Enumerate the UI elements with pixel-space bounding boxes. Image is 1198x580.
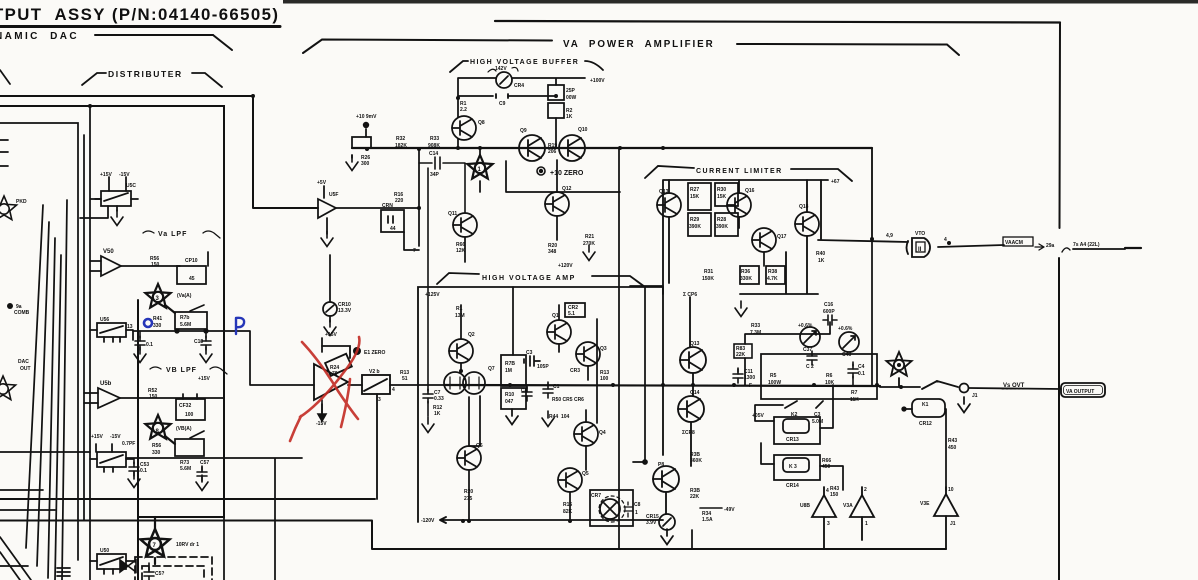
- capacitor C: [134, 331, 146, 363]
- star output: [886, 352, 911, 387]
- svg-text:275: 275: [464, 496, 473, 502]
- svg-text:R29: R29: [690, 217, 699, 223]
- section label: DISTRIBUTER bracket: [82, 73, 222, 87]
- svg-text:34P: 34P: [430, 172, 440, 178]
- svg-text:Va LPF: Va LPF: [158, 231, 187, 238]
- transistor Q19: [680, 347, 706, 396]
- svg-text:+15V: +15V: [198, 376, 210, 382]
- capacitor C7 0.33: [422, 385, 434, 433]
- transistor Q12: [545, 160, 569, 240]
- svg-text:4.7K: 4.7K: [767, 276, 778, 282]
- svg-text:29a: 29a: [1046, 243, 1055, 249]
- dashed boxes bottom-left: [135, 557, 212, 580]
- svg-text:44: 44: [390, 226, 396, 232]
- svg-text:C3: C3: [814, 412, 821, 418]
- svg-text:R44: R44: [549, 414, 558, 420]
- connector J1: [958, 384, 970, 413]
- svg-text:13: 13: [127, 324, 133, 330]
- svg-text:908K: 908K: [428, 143, 440, 149]
- svg-text:348: 348: [548, 249, 557, 255]
- svg-text:HIGH VOLTAGE BUFFER: HIGH VOLTAGE BUFFER: [470, 59, 579, 66]
- svg-text:Q17: Q17: [777, 234, 787, 240]
- svg-text:Q5: Q5: [582, 471, 589, 477]
- relay box with switch: [175, 431, 204, 456]
- ground under U5C: [111, 210, 123, 226]
- svg-text:7.3M: 7.3M: [750, 330, 761, 336]
- border: top dark band: [283, 0, 1198, 4]
- svg-text:R7b: R7b: [180, 315, 189, 321]
- star 1: [467, 148, 492, 192]
- svg-text:7: 7: [153, 543, 157, 549]
- diode CR2 box: [565, 303, 585, 317]
- svg-text:HIGH VOLTAGE AMP: HIGH VOLTAGE AMP: [482, 275, 576, 282]
- star 2 (Va(A)): [145, 284, 175, 313]
- wire distributer box: [0, 106, 224, 580]
- svg-text:+10 ZERO: +10 ZERO: [550, 170, 584, 177]
- svg-text:360K: 360K: [690, 458, 702, 464]
- svg-text:00W: 00W: [566, 95, 577, 101]
- svg-text:C4: C4: [858, 364, 865, 370]
- far-left partial star: [0, 196, 17, 220]
- svg-text:R43: R43: [948, 438, 957, 444]
- svg-text:+0.6%: +0.6%: [838, 326, 853, 332]
- svg-text:150K: 150K: [702, 276, 714, 282]
- transistor Q3: [576, 342, 600, 380]
- svg-text:CR13: CR13: [786, 437, 799, 443]
- svg-text:NAMIC DAC: NAMIC DAC: [0, 31, 79, 42]
- transistor Q14: [678, 396, 704, 466]
- svg-text:C8: C8: [521, 388, 528, 394]
- svg-text:COMB: COMB: [14, 310, 30, 316]
- wire left feeders: [0, 70, 101, 580]
- relay K2: [774, 417, 820, 444]
- svg-text:0.1: 0.1: [140, 468, 147, 474]
- wire arrow to A4: [1035, 244, 1070, 252]
- svg-text:5.6M: 5.6M: [180, 322, 191, 328]
- wire CL inner verticals: [669, 180, 821, 347]
- svg-text:150: 150: [149, 394, 158, 400]
- svg-text:P8: P8: [658, 462, 664, 468]
- svg-text:CF32: CF32: [179, 403, 191, 409]
- resistor R27: [688, 183, 711, 210]
- svg-text:C9: C9: [499, 101, 506, 107]
- resistor R30: [715, 183, 738, 206]
- svg-text:220: 220: [395, 198, 404, 204]
- svg-text:330: 330: [152, 450, 161, 456]
- svg-text:100: 100: [185, 412, 194, 418]
- svg-text:CR7: CR7: [591, 493, 601, 499]
- wire down from CL corner: [745, 239, 872, 385]
- transistor pair Q7: [444, 372, 485, 394]
- wire main out: [880, 381, 1061, 389]
- svg-text:(VB(A): (VB(A): [176, 426, 192, 432]
- svg-text:0.7PF: 0.7PF: [122, 441, 135, 447]
- svg-text:VA POWER AMPLIFIER: VA POWER AMPLIFIER: [563, 39, 715, 50]
- svg-text:C 2: C 2: [806, 364, 814, 370]
- svg-text:OUT: OUT: [20, 366, 31, 372]
- svg-text:3.9V: 3.9V: [646, 520, 657, 526]
- svg-text:CR12: CR12: [919, 421, 932, 427]
- svg-text:+05V: +05V: [752, 413, 764, 419]
- svg-text:45: 45: [189, 276, 195, 282]
- section label: VA POWER AMPLIFIER bracket: [303, 40, 959, 56]
- svg-text:C48: C48: [842, 352, 851, 358]
- svg-text:R21: R21: [585, 234, 594, 240]
- CRN cap box: [381, 210, 419, 250]
- transistor Q16: [727, 193, 751, 217]
- svg-text:VTO: VTO: [915, 231, 925, 237]
- transistor Q8: [452, 116, 476, 140]
- svg-text:II: II: [918, 247, 922, 253]
- op-amp U5D: [84, 388, 224, 408]
- ground under R26: [346, 155, 358, 171]
- svg-text:150: 150: [151, 262, 160, 268]
- svg-text:K1: K1: [922, 402, 929, 408]
- op-amp U3B: [812, 487, 836, 549]
- svg-text:15K: 15K: [717, 194, 727, 200]
- svg-text:104: 104: [561, 414, 570, 420]
- svg-text:Σ CP6: Σ CP6: [683, 292, 697, 298]
- svg-text:0.1: 0.1: [146, 342, 153, 348]
- svg-text:2.2: 2.2: [460, 107, 467, 113]
- transistor Q1: [547, 305, 571, 352]
- svg-text:V50: V50: [103, 249, 114, 255]
- svg-text:142V: 142V: [495, 66, 507, 72]
- svg-text:10: 10: [948, 487, 954, 493]
- svg-text:U8B: U8B: [800, 503, 810, 509]
- svg-text:100: 100: [600, 376, 609, 382]
- svg-text:Q9: Q9: [520, 128, 527, 134]
- svg-text:K 3: K 3: [789, 464, 797, 470]
- wire RC box: [761, 354, 877, 399]
- wire lower bus y499 y520: [0, 499, 946, 549]
- svg-text:R31: R31: [704, 269, 713, 275]
- svg-text:25P: 25P: [566, 88, 576, 94]
- svg-text:600P: 600P: [823, 309, 835, 315]
- svg-text:ΣCP8: ΣCP8: [682, 430, 695, 436]
- svg-text:C57: C57: [200, 460, 209, 466]
- svg-text:15K: 15K: [690, 194, 700, 200]
- svg-text:3: 3: [827, 521, 830, 527]
- svg-text:+120V: +120V: [558, 263, 573, 269]
- svg-text:047: 047: [505, 399, 514, 405]
- svg-text:R30: R30: [717, 187, 726, 193]
- svg-text:105P: 105P: [537, 364, 549, 370]
- trimmer C37: [800, 327, 820, 347]
- op-amp U1 crossed out: [314, 346, 352, 400]
- transistor Q9: [519, 135, 545, 161]
- svg-text:R10: R10: [505, 392, 514, 398]
- capacitor C2: [807, 351, 817, 365]
- IC U5C: [80, 177, 138, 218]
- svg-text:Q18: Q18: [799, 204, 809, 210]
- svg-text:0.1: 0.1: [858, 371, 865, 377]
- wire from supplies: [322, 255, 330, 413]
- annotation red X: [290, 337, 359, 441]
- DA COMB node: [7, 303, 13, 309]
- wire HVB top rail: [458, 78, 585, 148]
- svg-text:1M: 1M: [505, 368, 512, 374]
- svg-text:22K: 22K: [690, 494, 700, 500]
- svg-text:Q7: Q7: [488, 366, 495, 372]
- op-amp V50: [90, 256, 180, 276]
- svg-text:22K: 22K: [736, 352, 746, 358]
- resistor R28: [715, 213, 738, 236]
- wire top bus y95: [0, 96, 318, 208]
- svg-text:+5V: +5V: [317, 180, 327, 186]
- section label: HIGH VOLTAGE BUFFER: [450, 61, 603, 72]
- annotation blue P: [144, 318, 244, 334]
- wire main signal y385: [444, 385, 880, 386]
- section label: DYNAMIC DAC: [95, 35, 232, 50]
- star 8 (VB(A)): [145, 415, 175, 444]
- svg-text:CURRENT LIMITER: CURRENT LIMITER: [696, 168, 783, 175]
- svg-text:R28: R28: [717, 217, 726, 223]
- capacitor C53: [128, 459, 140, 488]
- section label: CURRENT LIMITER: [645, 166, 852, 181]
- svg-text:V3A: V3A: [843, 503, 853, 509]
- svg-text:J1: J1: [972, 393, 978, 399]
- wire -120V rail: [440, 517, 663, 523]
- svg-text:Q14: Q14: [690, 390, 700, 396]
- svg-text:E1 ZERO: E1 ZERO: [364, 350, 386, 356]
- svg-text:330K: 330K: [740, 276, 752, 282]
- wire stub under relays: [691, 530, 693, 549]
- svg-text:R15: R15: [563, 502, 572, 508]
- svg-text:C14: C14: [429, 151, 438, 157]
- svg-text:V2 b: V2 b: [369, 369, 380, 375]
- svg-text:-15V: -15V: [110, 434, 121, 440]
- capacitor C11 1300: [733, 368, 743, 383]
- node +10 9mV: [363, 122, 369, 128]
- svg-text:4,9: 4,9: [886, 233, 893, 239]
- svg-text:4: 4: [392, 387, 395, 393]
- capacitor C9: [496, 94, 508, 98]
- svg-text:5.1: 5.1: [568, 311, 575, 317]
- wire bottom-left horizontals: [0, 452, 90, 566]
- svg-text:330: 330: [153, 323, 162, 329]
- svg-text:+15V: +15V: [325, 332, 337, 338]
- svg-text:C16: C16: [824, 302, 833, 308]
- svg-text:F: F: [749, 383, 752, 389]
- svg-text:3: 3: [378, 397, 381, 403]
- transistor Q18: [795, 212, 819, 236]
- svg-text:R7: R7: [851, 390, 858, 396]
- wire bottom-left diagonals: [0, 537, 70, 580]
- svg-text:U5b: U5b: [100, 381, 112, 387]
- svg-text:TPUT ASSY (P/N:04140-66505): TPUT ASSY (P/N:04140-66505): [0, 5, 279, 24]
- transistor Q2: [449, 305, 473, 371]
- op-amp U3A: [850, 487, 874, 540]
- svg-text:R5: R5: [770, 373, 777, 379]
- ground under U5F: [321, 231, 333, 247]
- svg-text:R33: R33: [751, 323, 760, 329]
- transistor Q4: [574, 410, 598, 470]
- bowtie symbol: [120, 560, 136, 572]
- +10 ZERO adjust: [537, 167, 545, 175]
- switch box U2b: [348, 375, 444, 499]
- wire relay feeders: [755, 385, 833, 464]
- svg-text:Q13: Q13: [659, 189, 669, 195]
- svg-text:390K: 390K: [689, 224, 701, 230]
- svg-text:CRN: CRN: [382, 203, 393, 209]
- transistor Q17: [752, 228, 776, 266]
- svg-text:+0.6%: +0.6%: [798, 323, 813, 329]
- svg-text:100W: 100W: [768, 380, 781, 386]
- junction dots scattered: [88, 94, 874, 523]
- capacitor C8: [522, 385, 532, 401]
- svg-text:R7B: R7B: [505, 361, 515, 367]
- capacitor C14 34P: [419, 157, 465, 385]
- border: title underline: [0, 25, 280, 28]
- svg-text:J1: J1: [950, 521, 956, 527]
- wire vertical bus cluster: [26, 200, 67, 580]
- svg-text:Q10: Q10: [578, 127, 588, 133]
- svg-text:Q6: Q6: [476, 443, 483, 449]
- svg-text:R27: R27: [690, 187, 699, 193]
- svg-text:R40: R40: [816, 251, 825, 257]
- svg-text:182K: 182K: [395, 143, 407, 149]
- node E1 ZERO: [353, 347, 361, 355]
- transistor Q11: [453, 213, 477, 262]
- svg-text:Q2: Q2: [468, 332, 475, 338]
- capacitor C4: [848, 362, 858, 385]
- svg-text:R50 CR5 CR6: R50 CR5 CR6: [552, 397, 584, 403]
- svg-text:1K: 1K: [566, 114, 573, 120]
- svg-text:10RV dr 1: 10RV dr 1: [176, 542, 199, 548]
- svg-text:4: 4: [944, 237, 947, 243]
- svg-text:+125V: +125V: [425, 292, 440, 298]
- svg-text:K2: K2: [791, 412, 798, 418]
- switch: [190, 305, 204, 311]
- svg-text:13M: 13M: [455, 313, 465, 319]
- svg-text:-49V: -49V: [724, 507, 735, 513]
- IC U56: [90, 323, 133, 342]
- svg-text:1: 1: [865, 521, 868, 527]
- svg-text:R41: R41: [153, 316, 162, 322]
- capacitor C1: [542, 382, 554, 427]
- border: right edge vertical: [1059, 23, 1060, 580]
- resistor stack R2: [548, 85, 564, 118]
- svg-text:PKD: PKD: [16, 199, 27, 205]
- resistor R83 22K: [734, 344, 752, 358]
- wire y458 row: [126, 458, 302, 580]
- op-amp U5F: [318, 149, 419, 246]
- svg-text:+67: +67: [831, 179, 840, 185]
- trimmer C48: [839, 332, 859, 352]
- svg-text:1K: 1K: [434, 411, 441, 417]
- svg-text:150: 150: [830, 492, 839, 498]
- IC U50: [90, 554, 135, 574]
- svg-text:CP10: CP10: [185, 258, 198, 264]
- capacitor C3 105P: [524, 356, 540, 366]
- wire into HVB input resistor: [352, 129, 872, 158]
- svg-text:C37: C37: [803, 347, 812, 353]
- svg-text:C8: C8: [634, 502, 641, 508]
- svg-text:R32: R32: [396, 136, 405, 142]
- svg-text:0.33: 0.33: [434, 396, 444, 402]
- svg-text:DISTRIBUTER: DISTRIBUTER: [108, 69, 183, 79]
- svg-text:C5?: C5?: [155, 571, 164, 577]
- transistor Q5: [558, 468, 582, 521]
- svg-text:Q16: Q16: [745, 188, 755, 194]
- relay K1: [902, 399, 946, 490]
- svg-text:-120V: -120V: [421, 518, 435, 524]
- net label VAACM: [1003, 237, 1033, 246]
- svg-text:Vs OVT: Vs OVT: [1003, 383, 1025, 389]
- diode CR7 box: [590, 490, 633, 526]
- svg-text:U5C: U5C: [126, 183, 136, 189]
- svg-text:7s A4 (22L): 7s A4 (22L): [1073, 242, 1100, 248]
- wire box around zero: [506, 148, 620, 549]
- svg-text:VB LPF: VB LPF: [166, 367, 197, 374]
- transistor Q6: [457, 397, 481, 521]
- junction dots on -120V rail: [467, 519, 471, 523]
- svg-text:450: 450: [948, 445, 957, 451]
- svg-text:(Va(A): (Va(A): [177, 293, 192, 299]
- svg-text:1K: 1K: [818, 258, 825, 264]
- CF32 box: [176, 394, 205, 420]
- svg-text:4: 4: [826, 488, 829, 494]
- ground CL: [735, 301, 747, 317]
- svg-text:R33: R33: [430, 136, 439, 142]
- svg-text:R38: R38: [768, 269, 777, 275]
- wire -49V stub: [700, 507, 722, 509]
- svg-text:206: 206: [548, 149, 557, 155]
- svg-text:C1: C1: [553, 384, 560, 390]
- svg-text:C13: C13: [194, 339, 203, 345]
- resistor R7B 1M: [501, 287, 526, 386]
- svg-text:12K: 12K: [456, 248, 466, 254]
- wire CL top rail: [663, 148, 872, 294]
- svg-text:70: 70: [332, 371, 338, 377]
- svg-text:Q3: Q3: [600, 346, 607, 352]
- svg-text:U50: U50: [100, 548, 109, 554]
- svg-text:V3E: V3E: [920, 501, 930, 507]
- junction dots main wire: [732, 383, 736, 387]
- svg-text:Q13: Q13: [690, 341, 700, 347]
- transistor Q10: [559, 135, 585, 161]
- wire CL output y239: [818, 240, 1125, 249]
- svg-text:Q11: Q11: [448, 211, 457, 217]
- svg-text:-15V: -15V: [316, 421, 327, 427]
- svg-text:-15V: -15V: [119, 172, 130, 178]
- star 7: [141, 517, 170, 564]
- svg-text:C3: C3: [526, 350, 533, 356]
- svg-text:1: 1: [635, 510, 638, 516]
- svg-text:1300: 1300: [744, 375, 755, 381]
- resistor R36: [740, 266, 759, 284]
- svg-text:2: 2: [864, 487, 867, 493]
- resistor R 5.6M box: [133, 312, 314, 385]
- svg-text:R6: R6: [826, 373, 833, 379]
- svg-text:300: 300: [361, 161, 370, 167]
- svg-text:CR4: CR4: [514, 83, 524, 89]
- svg-text:Q8: Q8: [478, 120, 485, 126]
- svg-text:VAACM: VAACM: [1005, 240, 1023, 246]
- svg-text:U56: U56: [100, 317, 109, 323]
- svg-text:5.0M: 5.0M: [812, 419, 823, 425]
- box VA OUTPUT: [1061, 383, 1105, 397]
- svg-text:+100V: +100V: [590, 78, 605, 84]
- relay K3: [774, 455, 820, 480]
- svg-text:Q12: Q12: [562, 186, 572, 192]
- diode CR4: [488, 67, 518, 88]
- svg-text:11K: 11K: [850, 397, 859, 403]
- diode CR10 13.3V: [323, 302, 337, 316]
- transistor Q21: [653, 466, 679, 514]
- svg-text:Q1: Q1: [552, 313, 559, 319]
